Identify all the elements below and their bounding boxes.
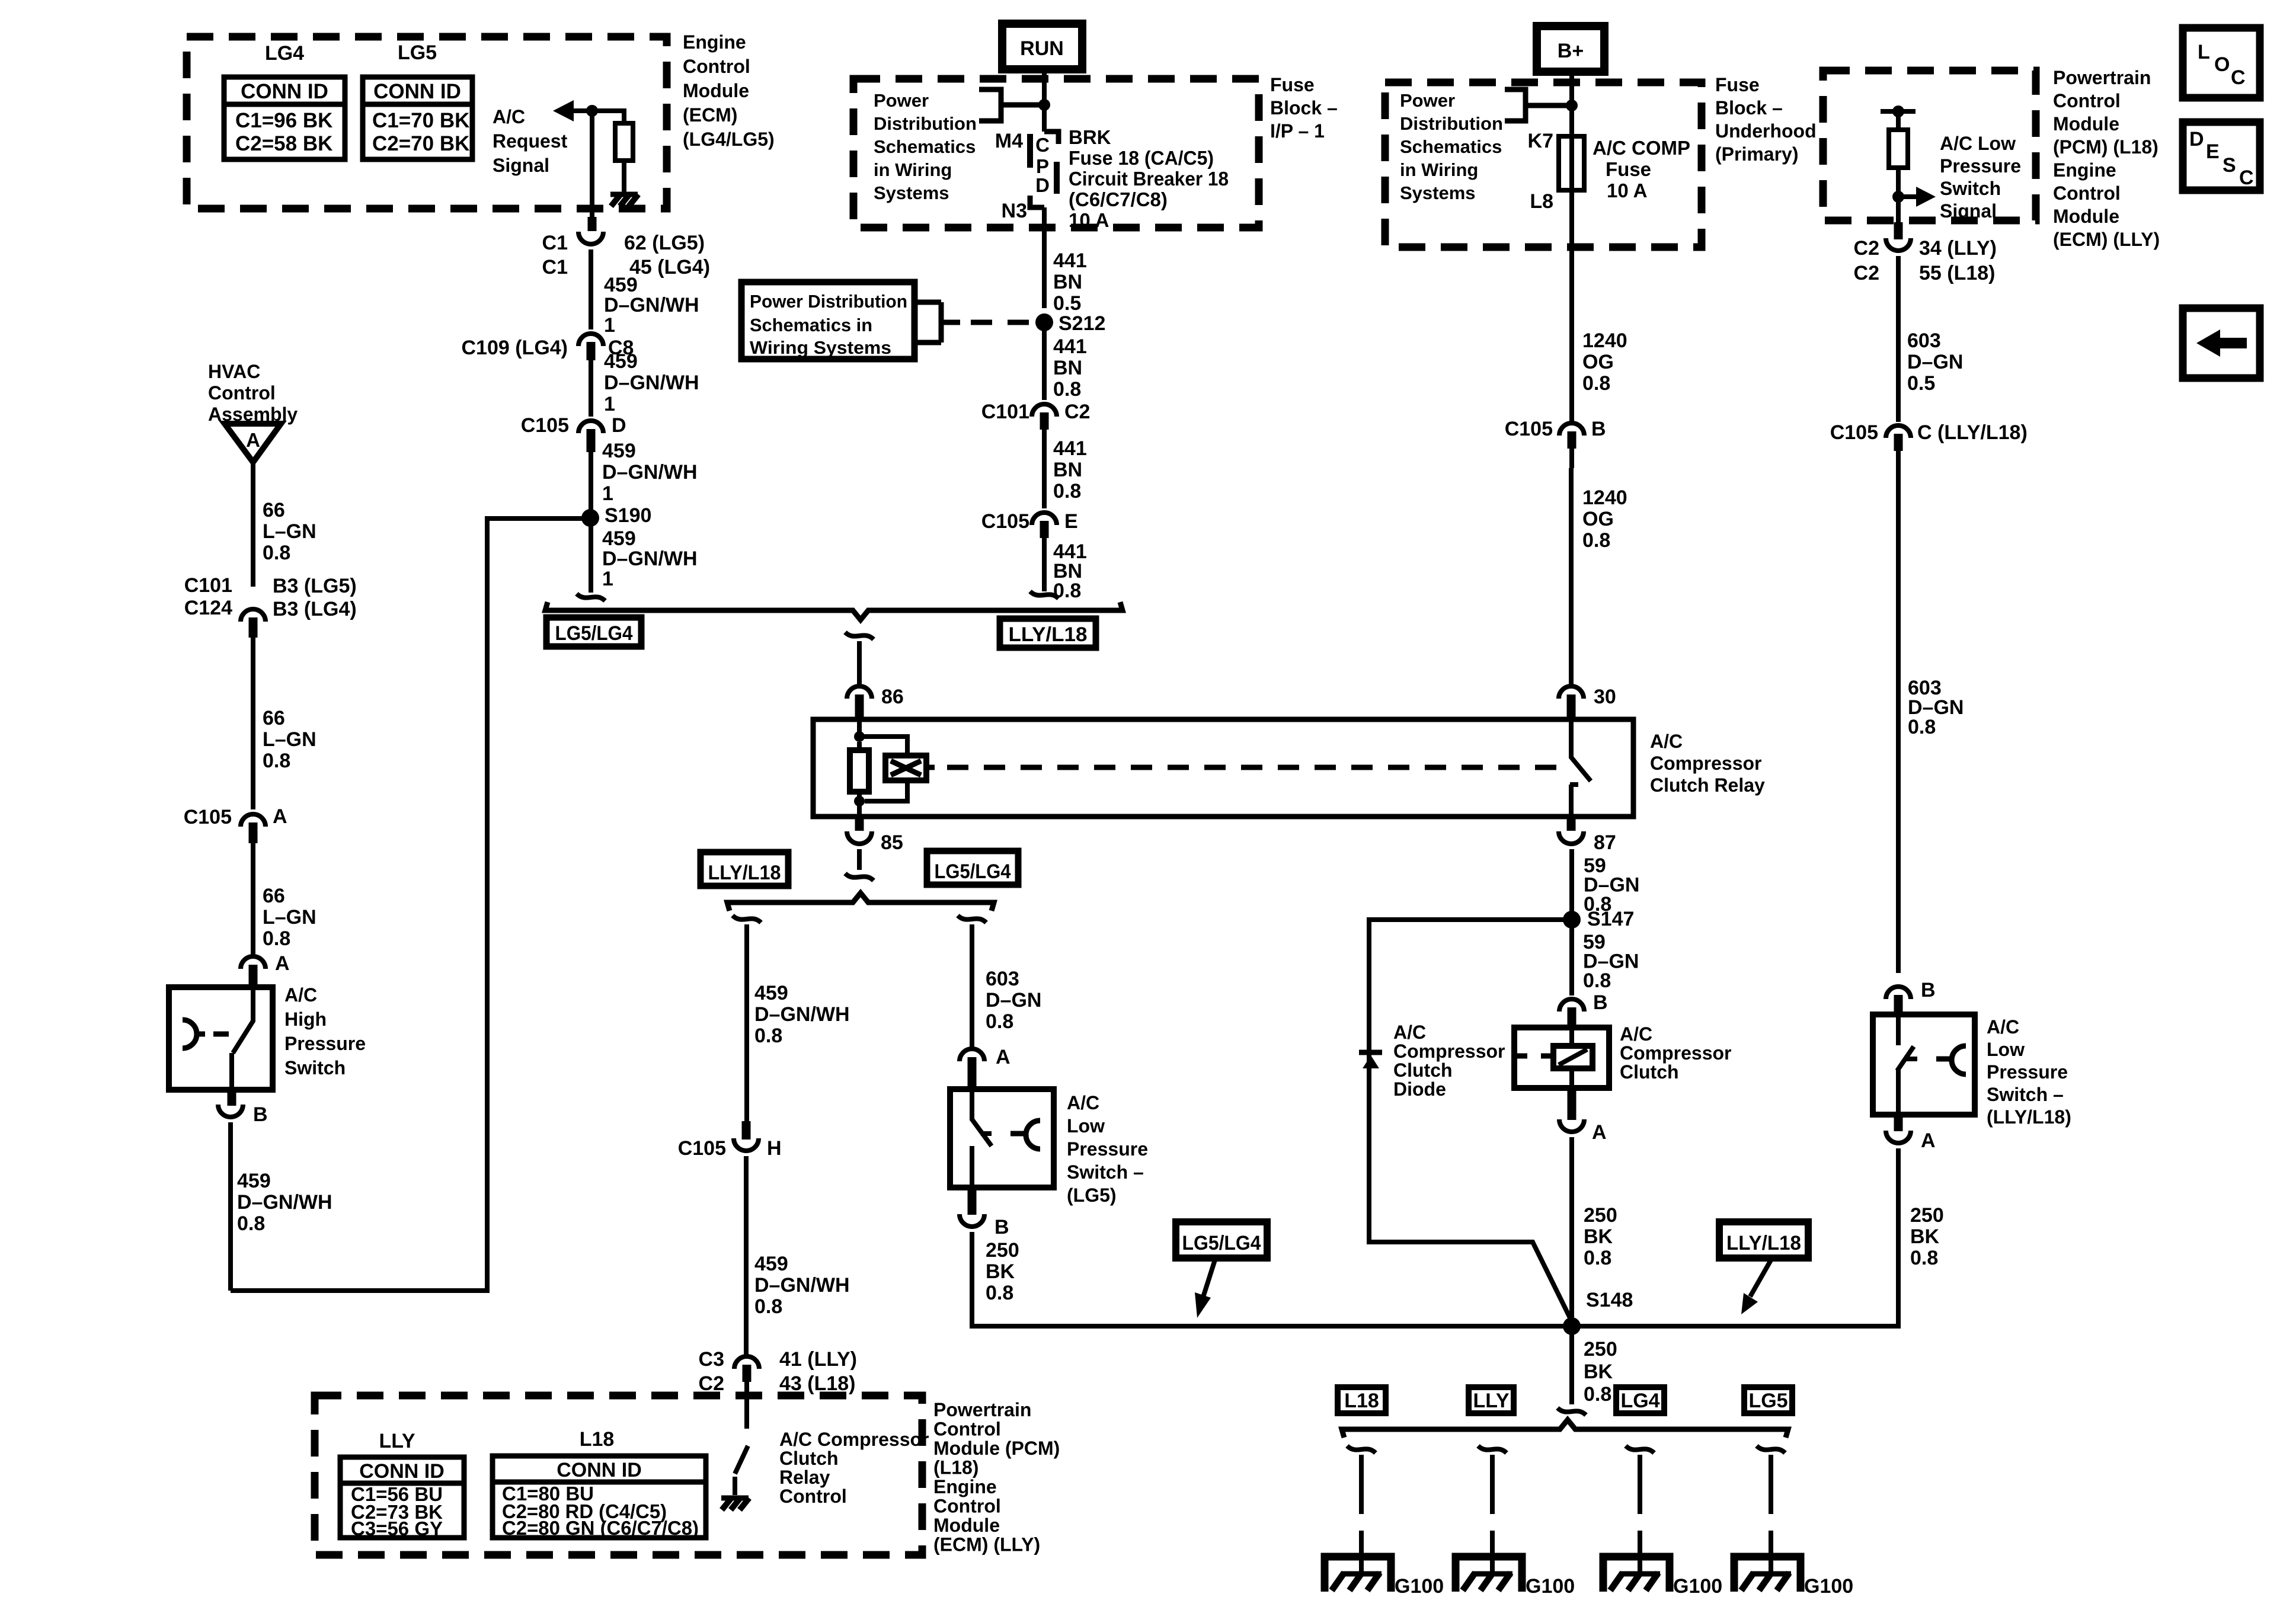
svg-text:Fuse: Fuse — [1270, 74, 1315, 95]
svg-text:Engine: Engine — [683, 31, 746, 53]
svg-text:Clutch: Clutch — [1393, 1060, 1453, 1081]
svg-text:BK: BK — [1910, 1225, 1940, 1248]
svg-text:(L18): (L18) — [933, 1457, 978, 1478]
svg-text:0.8: 0.8 — [754, 1025, 782, 1047]
svg-text:Low: Low — [1067, 1115, 1105, 1137]
svg-text:441: 441 — [1053, 437, 1087, 460]
svg-text:Switch: Switch — [1940, 178, 2001, 199]
svg-text:D–GN/WH: D–GN/WH — [602, 461, 698, 484]
svg-text:Request: Request — [493, 130, 568, 152]
svg-text:C101: C101 — [981, 401, 1029, 423]
svg-text:E: E — [1064, 510, 1078, 533]
svg-text:Control: Control — [933, 1419, 1001, 1440]
svg-text:S: S — [2223, 154, 2236, 177]
svg-text:C105: C105 — [184, 806, 232, 828]
svg-text:0.5: 0.5 — [1907, 372, 1935, 395]
svg-text:0.8: 0.8 — [1582, 372, 1610, 395]
svg-text:0.8: 0.8 — [263, 750, 290, 772]
svg-text:41 (LLY): 41 (LLY) — [779, 1348, 857, 1371]
svg-text:86: 86 — [881, 686, 904, 708]
svg-text:1: 1 — [602, 482, 613, 505]
svg-text:Compressor: Compressor — [1650, 753, 1762, 774]
svg-text:441: 441 — [1053, 335, 1087, 358]
svg-text:A: A — [246, 429, 260, 451]
svg-text:Control: Control — [933, 1496, 1001, 1517]
svg-text:D–GN/WH: D–GN/WH — [237, 1191, 332, 1214]
svg-text:LG4: LG4 — [1620, 1390, 1659, 1412]
svg-text:C1=96 BK: C1=96 BK — [235, 109, 332, 132]
svg-text:C2: C2 — [1064, 401, 1090, 423]
svg-text:D: D — [612, 414, 626, 437]
svg-text:C105: C105 — [981, 510, 1029, 533]
svg-text:Clutch: Clutch — [779, 1448, 839, 1469]
svg-text:Fuse 18 (CA/C5): Fuse 18 (CA/C5) — [1069, 147, 1214, 169]
svg-text:C3: C3 — [699, 1348, 724, 1371]
svg-text:D–GN/WH: D–GN/WH — [604, 372, 699, 394]
svg-text:0.8: 0.8 — [754, 1295, 782, 1318]
svg-text:Underhood: Underhood — [1715, 120, 1817, 142]
svg-text:C105: C105 — [521, 414, 569, 437]
svg-text:D–GN: D–GN — [986, 989, 1041, 1012]
svg-text:A/C: A/C — [1987, 1016, 2019, 1038]
svg-text:A/C: A/C — [1393, 1022, 1426, 1043]
svg-text:(ECM) (LLY): (ECM) (LLY) — [2053, 229, 2160, 250]
svg-text:C109 (LG4): C109 (LG4) — [462, 337, 568, 359]
svg-text:459: 459 — [604, 274, 638, 296]
svg-text:LLY/L18: LLY/L18 — [1009, 623, 1088, 646]
svg-text:C124: C124 — [184, 597, 232, 619]
svg-text:S212: S212 — [1059, 312, 1105, 335]
svg-text:G100: G100 — [1526, 1575, 1575, 1598]
svg-text:Low: Low — [1987, 1039, 2025, 1060]
svg-text:250: 250 — [1910, 1204, 1944, 1227]
svg-text:459: 459 — [237, 1170, 271, 1192]
svg-text:OG: OG — [1582, 351, 1614, 373]
svg-text:Switch –: Switch – — [1987, 1084, 2064, 1105]
svg-text:Diode: Diode — [1393, 1078, 1446, 1100]
svg-text:Powertrain: Powertrain — [933, 1399, 1031, 1420]
svg-text:BRK: BRK — [1069, 126, 1111, 148]
svg-text:Wiring Systems: Wiring Systems — [750, 337, 891, 358]
svg-text:LG5: LG5 — [1748, 1390, 1787, 1412]
svg-text:1240: 1240 — [1582, 486, 1627, 509]
svg-text:A/C: A/C — [1067, 1092, 1099, 1113]
svg-text:C101: C101 — [184, 574, 232, 597]
svg-text:D: D — [1035, 174, 1050, 196]
svg-text:B: B — [1593, 991, 1608, 1014]
svg-text:B+: B+ — [1558, 40, 1584, 62]
svg-text:1: 1 — [602, 568, 613, 590]
svg-text:C (LLY/L18): C (LLY/L18) — [1917, 421, 2028, 444]
svg-text:43 (L18): 43 (L18) — [779, 1372, 856, 1395]
svg-text:S148: S148 — [1586, 1289, 1633, 1311]
svg-text:Power Distribution: Power Distribution — [750, 291, 907, 312]
svg-text:Power: Power — [874, 90, 929, 111]
svg-text:LLY/L18: LLY/L18 — [708, 862, 781, 884]
svg-text:Distribution: Distribution — [1400, 113, 1503, 134]
svg-text:H: H — [767, 1137, 782, 1160]
svg-text:G100: G100 — [1395, 1575, 1444, 1598]
svg-text:L8: L8 — [1530, 190, 1553, 213]
svg-text:Clutch Relay: Clutch Relay — [1650, 774, 1765, 796]
svg-text:A: A — [1592, 1121, 1607, 1144]
svg-text:(C6/C7/C8): (C6/C7/C8) — [1069, 188, 1168, 210]
svg-text:Engine: Engine — [933, 1476, 997, 1497]
svg-text:55 (L18): 55 (L18) — [1919, 262, 1996, 284]
svg-text:LG5/LG4: LG5/LG4 — [935, 860, 1011, 883]
svg-text:A/C COMP: A/C COMP — [1593, 137, 1690, 159]
svg-text:45 (LG4): 45 (LG4) — [629, 256, 710, 279]
svg-text:L–GN: L–GN — [263, 520, 316, 543]
svg-text:A/C: A/C — [1620, 1023, 1652, 1045]
svg-text:0.8: 0.8 — [1053, 480, 1081, 502]
svg-text:Systems: Systems — [1400, 183, 1476, 203]
svg-text:S190: S190 — [605, 504, 651, 527]
svg-text:0.8: 0.8 — [1910, 1247, 1938, 1269]
svg-text:66: 66 — [263, 499, 285, 521]
svg-text:250: 250 — [1584, 1204, 1617, 1227]
svg-text:459: 459 — [754, 1253, 788, 1275]
svg-text:G100: G100 — [1673, 1575, 1722, 1598]
svg-text:BK: BK — [1584, 1225, 1613, 1248]
svg-text:L: L — [2198, 41, 2210, 63]
svg-text:1240: 1240 — [1582, 329, 1627, 352]
svg-text:(LG4/LG5): (LG4/LG5) — [683, 129, 775, 150]
svg-text:C2=80 GN (C6/C7/C8): C2=80 GN (C6/C7/C8) — [502, 1517, 699, 1539]
svg-text:459: 459 — [602, 527, 636, 550]
svg-text:Control: Control — [683, 56, 750, 77]
svg-text:Relay: Relay — [779, 1467, 830, 1488]
svg-text:Signal: Signal — [493, 155, 549, 176]
svg-text:603: 603 — [1907, 329, 1941, 352]
svg-text:A/C Low: A/C Low — [1940, 133, 2016, 154]
svg-text:0.8: 0.8 — [1584, 1247, 1611, 1269]
svg-text:C1=70 BK: C1=70 BK — [372, 109, 469, 132]
svg-text:C1: C1 — [542, 232, 568, 254]
svg-text:30: 30 — [1594, 686, 1616, 708]
svg-text:LLY/L18: LLY/L18 — [1726, 1232, 1801, 1254]
svg-text:A: A — [275, 952, 290, 975]
svg-text:Power: Power — [1400, 90, 1455, 111]
svg-text:250: 250 — [986, 1239, 1019, 1262]
svg-text:C105: C105 — [1830, 421, 1878, 444]
svg-text:B3 (LG5): B3 (LG5) — [273, 575, 357, 597]
svg-text:D–GN/WH: D–GN/WH — [602, 548, 698, 570]
svg-text:B: B — [253, 1103, 268, 1126]
svg-text:BK: BK — [1584, 1361, 1613, 1383]
svg-text:B: B — [1591, 418, 1606, 440]
svg-text:250: 250 — [1584, 1338, 1617, 1361]
svg-text:CONN ID: CONN ID — [359, 1460, 445, 1483]
svg-text:0.8: 0.8 — [263, 927, 290, 950]
svg-text:0.8: 0.8 — [1908, 716, 1936, 738]
svg-text:M4: M4 — [995, 130, 1023, 152]
svg-text:Control: Control — [208, 382, 276, 404]
svg-text:87: 87 — [1594, 831, 1616, 854]
svg-text:B: B — [1921, 979, 1936, 1001]
svg-text:Circuit Breaker 18: Circuit Breaker 18 — [1069, 168, 1229, 190]
svg-text:1: 1 — [604, 314, 615, 337]
svg-text:0.5: 0.5 — [1053, 292, 1081, 315]
svg-text:0.8: 0.8 — [986, 1010, 1013, 1033]
svg-text:C2=70 BK: C2=70 BK — [372, 132, 469, 155]
svg-text:0.8: 0.8 — [1584, 1383, 1611, 1406]
svg-text:Compressor: Compressor — [1620, 1042, 1732, 1064]
svg-text:D–GN/WH: D–GN/WH — [754, 1003, 850, 1026]
svg-text:Signal: Signal — [1940, 200, 1997, 222]
svg-text:Pressure: Pressure — [1940, 155, 2021, 177]
svg-text:D–GN/WH: D–GN/WH — [754, 1274, 850, 1297]
svg-text:1: 1 — [604, 393, 615, 415]
svg-text:HVAC: HVAC — [208, 361, 260, 382]
svg-text:Compressor: Compressor — [1393, 1041, 1505, 1062]
svg-text:0.8: 0.8 — [263, 542, 290, 564]
svg-text:C: C — [1035, 134, 1050, 156]
svg-text:Control: Control — [2053, 183, 2121, 204]
svg-text:K7: K7 — [1528, 130, 1553, 152]
svg-text:L18: L18 — [580, 1428, 615, 1451]
svg-text:Control: Control — [779, 1486, 847, 1507]
svg-text:66: 66 — [263, 707, 285, 729]
svg-text:LG4: LG4 — [265, 42, 304, 65]
svg-text:C3=56 GY: C3=56 GY — [351, 1518, 443, 1539]
svg-text:Schematics in: Schematics in — [750, 315, 872, 335]
svg-text:34 (LLY): 34 (LLY) — [1919, 237, 1997, 260]
svg-text:C105: C105 — [678, 1137, 726, 1160]
svg-text:85: 85 — [881, 831, 903, 854]
svg-text:Module (PCM): Module (PCM) — [933, 1438, 1060, 1459]
svg-text:459: 459 — [754, 982, 788, 1004]
svg-text:B3 (LG4): B3 (LG4) — [273, 598, 357, 620]
svg-text:A: A — [1921, 1129, 1936, 1152]
svg-text:Block –: Block – — [1270, 97, 1338, 119]
svg-text:Distribution: Distribution — [874, 113, 977, 134]
svg-text:(LLY/L18): (LLY/L18) — [1987, 1106, 2071, 1128]
svg-text:Powertrain: Powertrain — [2053, 67, 2151, 88]
svg-text:A: A — [273, 805, 287, 828]
svg-text:Schematics: Schematics — [1400, 136, 1502, 157]
svg-text:C2: C2 — [699, 1372, 724, 1395]
svg-text:Schematics: Schematics — [874, 136, 976, 157]
svg-text:Switch –: Switch – — [1067, 1161, 1144, 1183]
svg-text:CONN ID: CONN ID — [241, 80, 328, 103]
svg-text:RUN: RUN — [1020, 37, 1064, 60]
svg-text:N3: N3 — [1002, 200, 1027, 222]
svg-text:BN: BN — [1053, 357, 1082, 379]
svg-text:C105: C105 — [1505, 418, 1553, 440]
svg-text:OG: OG — [1582, 508, 1614, 530]
svg-text:0.8: 0.8 — [986, 1282, 1013, 1304]
svg-text:Block –: Block – — [1715, 97, 1783, 119]
svg-text:603: 603 — [986, 968, 1019, 990]
svg-text:A/C: A/C — [1650, 731, 1683, 752]
svg-text:C: C — [2239, 167, 2254, 189]
svg-text:Pressure: Pressure — [1067, 1138, 1148, 1160]
svg-text:LG5: LG5 — [398, 41, 437, 64]
svg-text:I/P – 1: I/P – 1 — [1270, 120, 1325, 142]
svg-text:Engine: Engine — [2053, 159, 2116, 181]
svg-text:B: B — [994, 1216, 1009, 1238]
svg-text:Module: Module — [933, 1515, 1000, 1536]
svg-text:C2: C2 — [1854, 237, 1879, 260]
svg-text:High: High — [284, 1009, 327, 1030]
svg-text:E: E — [2206, 140, 2220, 163]
svg-text:Pressure: Pressure — [1987, 1061, 2068, 1083]
svg-text:L–GN: L–GN — [263, 728, 316, 751]
svg-text:D–GN/WH: D–GN/WH — [604, 294, 699, 316]
svg-text:C2: C2 — [1854, 262, 1879, 284]
svg-text:BN: BN — [1053, 271, 1082, 293]
svg-text:C2=58 BK: C2=58 BK — [235, 132, 332, 155]
svg-text:Module: Module — [2053, 206, 2119, 227]
svg-text:in Wiring: in Wiring — [1400, 159, 1478, 180]
svg-text:(ECM): (ECM) — [683, 104, 737, 126]
svg-text:LG5/LG4: LG5/LG4 — [555, 622, 633, 645]
svg-text:(PCM) (L18): (PCM) (L18) — [2053, 136, 2159, 158]
svg-text:62 (LG5): 62 (LG5) — [624, 232, 705, 254]
svg-text:O: O — [2214, 53, 2230, 76]
svg-text:441: 441 — [1053, 249, 1087, 272]
svg-text:CONN ID: CONN ID — [557, 1459, 642, 1481]
svg-text:D–GN: D–GN — [1907, 351, 1963, 373]
svg-text:(Primary): (Primary) — [1715, 143, 1799, 165]
svg-text:0.8: 0.8 — [1582, 529, 1610, 552]
svg-text:10 A: 10 A — [1607, 180, 1647, 201]
svg-text:A/C: A/C — [284, 984, 317, 1006]
svg-text:D: D — [2189, 128, 2204, 151]
svg-text:LLY: LLY — [379, 1430, 415, 1452]
svg-text:0.8: 0.8 — [1583, 969, 1611, 992]
svg-text:Systems: Systems — [874, 183, 949, 203]
svg-text:L–GN: L–GN — [263, 906, 316, 929]
svg-text:(ECM) (LLY): (ECM) (LLY) — [933, 1534, 1040, 1555]
svg-text:Module: Module — [2053, 113, 2119, 135]
svg-text:Fuse: Fuse — [1715, 74, 1760, 95]
svg-text:CONN ID: CONN ID — [373, 80, 461, 103]
svg-text:Clutch: Clutch — [1620, 1061, 1679, 1083]
svg-text:Switch: Switch — [284, 1057, 346, 1078]
svg-text:BK: BK — [986, 1260, 1015, 1283]
svg-text:L18: L18 — [1344, 1390, 1379, 1412]
svg-text:LG5/LG4: LG5/LG4 — [1182, 1232, 1261, 1254]
svg-text:459: 459 — [602, 440, 636, 462]
svg-text:A: A — [996, 1046, 1011, 1068]
svg-text:A/C: A/C — [493, 106, 525, 127]
svg-text:S147: S147 — [1587, 908, 1634, 930]
svg-text:Pressure: Pressure — [284, 1033, 366, 1054]
svg-text:10 A: 10 A — [1069, 209, 1109, 231]
svg-text:LLY: LLY — [1473, 1390, 1509, 1412]
svg-text:BN: BN — [1053, 459, 1082, 481]
svg-text:0.8: 0.8 — [237, 1212, 265, 1235]
svg-text:Fuse: Fuse — [1606, 158, 1651, 180]
svg-text:(LG5): (LG5) — [1067, 1185, 1117, 1206]
svg-text:0.8: 0.8 — [1053, 378, 1081, 401]
svg-text:C: C — [2231, 66, 2246, 89]
svg-text:66: 66 — [263, 885, 285, 907]
svg-text:A/C Compressor: A/C Compressor — [779, 1429, 929, 1450]
svg-text:Module: Module — [683, 80, 749, 101]
svg-text:459: 459 — [604, 350, 638, 373]
svg-text:G100: G100 — [1804, 1575, 1853, 1598]
svg-text:C1: C1 — [542, 256, 568, 279]
svg-text:in Wiring: in Wiring — [874, 159, 952, 180]
svg-text:Control: Control — [2053, 90, 2121, 111]
